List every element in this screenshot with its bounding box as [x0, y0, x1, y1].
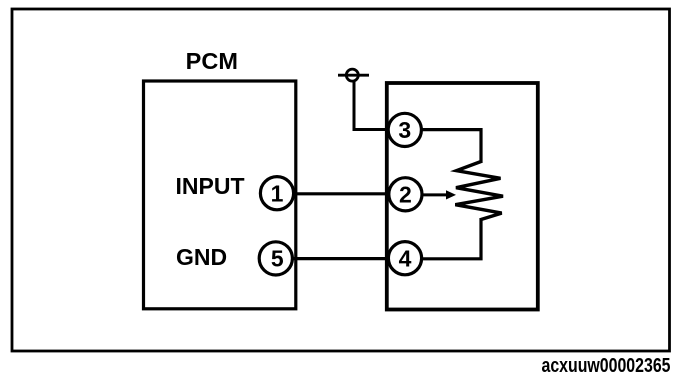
- pin label INPUT: [176, 173, 245, 199]
- pin 2: [389, 178, 422, 211]
- svg-text:4: 4: [399, 246, 412, 272]
- pin 5: [259, 242, 292, 275]
- wire pin 5 to pin 4: [293, 257, 389, 260]
- label PCM: [186, 48, 238, 74]
- wire power to pin 3: [354, 81, 388, 130]
- pin 3: [388, 113, 421, 146]
- svg-text:PCM: PCM: [186, 48, 238, 74]
- svg-text:2: 2: [399, 182, 412, 208]
- svg-text:5: 5: [271, 246, 284, 272]
- wire pin 1 to pin 2: [294, 192, 389, 195]
- figure id acxuuw00002365: [542, 354, 671, 377]
- potentiometer resistive element: [455, 162, 503, 220]
- power symbol: [338, 69, 369, 81]
- wire potentiometer bottom to pin 4: [422, 218, 481, 259]
- pin 1: [260, 177, 293, 210]
- pin label GND: [176, 244, 227, 270]
- wiper arrow from pin 2: [423, 190, 457, 199]
- pin 4: [388, 242, 421, 275]
- svg-text:GND: GND: [176, 244, 227, 270]
- svg-text:3: 3: [398, 117, 411, 143]
- svg-text:INPUT: INPUT: [176, 173, 245, 199]
- wire pin 3 to potentiometer top: [422, 130, 481, 163]
- sensor connector box: [387, 83, 538, 310]
- PCM module box: [144, 81, 296, 309]
- svg-text:acxuuw00002365: acxuuw00002365: [542, 354, 671, 377]
- svg-text:1: 1: [271, 181, 284, 207]
